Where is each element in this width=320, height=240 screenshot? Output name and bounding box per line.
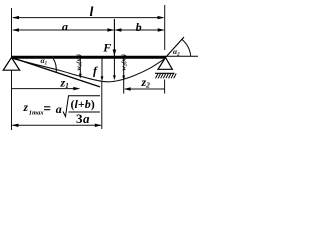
extension line left (support A) <box>11 8 13 57</box>
svg-text:w2(x2): w2(x2) <box>121 54 128 70</box>
arrow a right <box>107 28 114 31</box>
z2 dimension line <box>125 88 165 90</box>
svg-text:z: z <box>23 102 29 114</box>
angle arc alpha2 <box>182 39 191 55</box>
arrow b right <box>158 28 165 31</box>
dimension line l <box>13 17 163 19</box>
axis extension at B <box>166 55 199 57</box>
formula z1max = a sqrt((l+b)/3a) <box>23 96 101 126</box>
beam <box>12 56 166 59</box>
arrow b left <box>114 28 121 31</box>
arrow a left <box>12 28 19 31</box>
angle arc alpha1 <box>53 59 56 72</box>
svg-text:l: l <box>90 5 94 20</box>
section line w1 <box>79 59 81 77</box>
arrow bottom left <box>12 124 19 127</box>
svg-text:a: a <box>56 102 62 116</box>
equals sign <box>44 106 50 108</box>
arrow l left <box>12 16 19 19</box>
arrow z2 <box>124 87 131 90</box>
support A triangle <box>3 58 19 71</box>
svg-text:3a: 3a <box>76 111 90 126</box>
arrow l right <box>158 16 165 19</box>
bottom dimension line <box>13 124 101 126</box>
force F arrowhead <box>113 50 117 57</box>
arrow z1 <box>73 87 80 90</box>
arrow w2 <box>122 76 125 81</box>
tangent at B <box>166 37 185 58</box>
support B triangle <box>158 58 172 70</box>
section line w2 <box>123 59 125 94</box>
fraction bar <box>69 111 101 113</box>
extension line middle (force position) <box>113 19 115 56</box>
z1 dimension line <box>12 88 79 90</box>
tangent at A <box>12 58 101 87</box>
max deflection extension line <box>101 82 103 129</box>
support B ground line <box>155 72 175 74</box>
deflection curve <box>12 58 166 82</box>
svg-text:b: b <box>136 20 142 34</box>
svg-text:a: a <box>62 20 68 34</box>
dimension line b <box>115 29 163 31</box>
svg-text:1max: 1max <box>29 109 45 116</box>
svg-text:F: F <box>102 41 111 55</box>
arrow bottom right <box>95 124 102 127</box>
support B hatching <box>156 74 177 79</box>
z2 right extension <box>164 80 166 94</box>
arrow w1 <box>79 74 82 79</box>
extension line right (support B) <box>164 5 166 50</box>
dimension line a <box>13 29 114 31</box>
radical <box>63 96 100 117</box>
svg-text:w1(x1): w1(x1) <box>75 54 82 70</box>
svg-text:(l+b): (l+b) <box>71 97 95 111</box>
max deflection arrow f <box>101 59 103 80</box>
extension line left lower (A to bottom dimension) <box>11 70 13 130</box>
arrow under F <box>113 59 115 79</box>
